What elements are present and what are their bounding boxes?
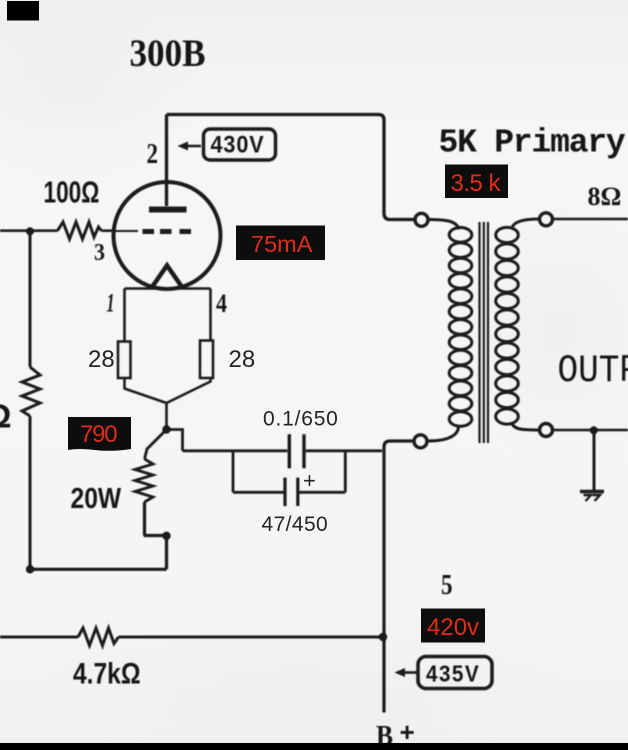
- svg-text:5K Primary: 5K Primary: [439, 125, 626, 162]
- svg-text:47/450: 47/450: [262, 513, 329, 536]
- svg-text:0.1/650: 0.1/650: [263, 408, 339, 431]
- svg-text:OUTPUT: OUTPUT: [558, 349, 628, 394]
- svg-text:5: 5: [441, 570, 453, 601]
- svg-text:4: 4: [216, 289, 227, 318]
- svg-text:20W: 20W: [71, 482, 122, 514]
- svg-text:430V: 430V: [211, 130, 265, 157]
- svg-text:420v: 420v: [427, 614, 479, 641]
- svg-text:1: 1: [107, 289, 115, 318]
- svg-text:8Ω: 8Ω: [588, 182, 622, 211]
- svg-text:4.7kΩ: 4.7kΩ: [73, 656, 141, 690]
- svg-text:28: 28: [88, 346, 115, 373]
- svg-text:Ω: Ω: [0, 398, 11, 435]
- svg-text:2: 2: [147, 139, 159, 170]
- svg-text:75mA: 75mA: [251, 231, 313, 257]
- svg-text:790: 790: [80, 421, 117, 448]
- svg-text:+: +: [303, 468, 316, 493]
- svg-text:3.5 k: 3.5 k: [451, 170, 502, 197]
- svg-text:+: +: [400, 717, 415, 747]
- svg-text:300B: 300B: [130, 32, 206, 75]
- svg-text:100Ω: 100Ω: [44, 174, 100, 209]
- svg-text:3: 3: [94, 240, 105, 266]
- svg-text:435V: 435V: [426, 660, 480, 686]
- svg-text:28: 28: [229, 346, 256, 373]
